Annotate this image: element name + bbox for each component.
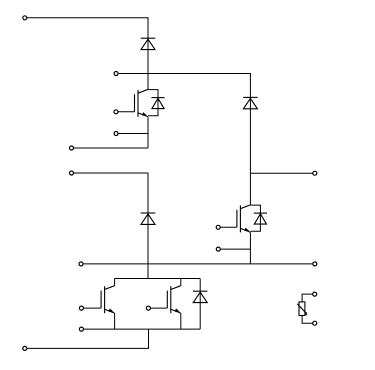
terminal 5: [70, 146, 74, 150]
terminal 6: [70, 171, 74, 175]
terminal 13 (T4 gate): [146, 306, 150, 310]
terminal 10 (T2 aux E): [216, 247, 220, 251]
terminal 7 (mid rail L): [79, 262, 83, 266]
terminal 17 (NTC b): [313, 321, 317, 325]
transistor T3: [81, 286, 114, 314]
wire input through D3 down to chopper block: [72, 173, 149, 279]
wire T1 emitter down: [147, 117, 149, 148]
wire T4 collector lead: [180, 279, 182, 286]
terminal 11 (mid rail R): [313, 262, 317, 266]
wire D5 branch: [199, 279, 201, 330]
wire T4 emitter lead: [180, 313, 182, 329]
terminal 9 (T2 gate): [216, 225, 220, 229]
wire T2 aux emitter tap: [218, 248, 250, 250]
thermistor R1: [297, 294, 315, 323]
terminal 16 (NTC a): [313, 292, 317, 296]
terminal 4 (T1 aux E): [114, 132, 118, 136]
transistor T4: [148, 286, 180, 314]
wire block emitter rail: [81, 328, 200, 330]
wire T3 emitter lead: [114, 313, 116, 329]
wire phase output: [250, 172, 314, 174]
diode D3: [141, 213, 155, 224]
terminal 1 (DC+): [23, 16, 27, 20]
wire bottom return: [25, 329, 149, 348]
wire T1 main emitter: [72, 147, 149, 149]
freewheel diode D_T2: [250, 205, 267, 231]
wire T1 aux emitter tap: [116, 133, 148, 135]
diode D5: [193, 291, 207, 302]
wire block collector rail: [115, 278, 201, 280]
terminal 15 (DC-): [23, 346, 27, 350]
transistor T1: [116, 89, 148, 117]
freewheel diode D_T1: [148, 90, 165, 116]
terminal 14 (T3 gate): [79, 306, 83, 310]
wire T2 emitter down: [249, 232, 251, 264]
wire top DC+ input through D1 to T1 collector: [25, 18, 148, 90]
terminal 3 (T1 gate): [114, 110, 118, 114]
diode D1: [141, 38, 155, 49]
terminal 12 (block E rail): [79, 327, 83, 331]
wire mid rail: [81, 263, 315, 265]
wire T3 collector lead: [114, 279, 116, 286]
transistor T2: [218, 205, 250, 233]
wire node through D2 to T2 collector: [116, 74, 250, 205]
diode D2: [243, 97, 257, 108]
terminal 2: [114, 72, 118, 76]
terminal 8 (phase): [313, 171, 317, 175]
